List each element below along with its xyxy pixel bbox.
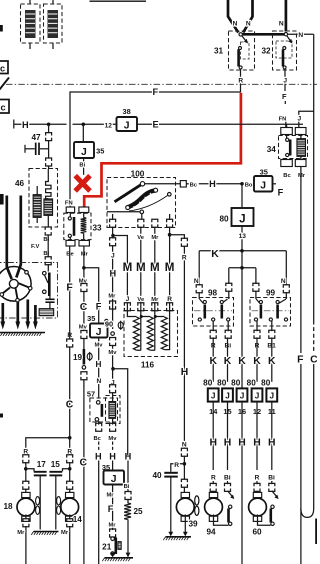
junction bbox=[240, 182, 244, 186]
svg-text:M: M bbox=[150, 261, 160, 274]
fuse 14 bbox=[208, 388, 219, 401]
svg-text:J: J bbox=[255, 391, 260, 400]
svg-text:C: C bbox=[80, 302, 88, 313]
wire H-E bus bbox=[13, 120, 15, 129]
junction bbox=[47, 123, 51, 127]
svg-text:J: J bbox=[81, 147, 87, 158]
svg-text:Mr: Mr bbox=[17, 530, 25, 536]
connector break 100p2 bbox=[138, 219, 144, 222]
connector break 57a bbox=[96, 423, 102, 426]
svg-text:H: H bbox=[95, 451, 102, 461]
junction bbox=[168, 233, 172, 237]
wire to 18 bbox=[26, 438, 70, 455]
svg-text:J: J bbox=[111, 474, 117, 485]
svg-text:Mr: Mr bbox=[81, 251, 89, 257]
wire Bi column bbox=[127, 461, 129, 493]
svg-text:57: 57 bbox=[87, 390, 95, 399]
coil 46a bbox=[33, 195, 41, 218]
svg-text:J: J bbox=[297, 116, 301, 123]
svg-text:J: J bbox=[239, 213, 245, 226]
connector break 99L bbox=[253, 283, 259, 286]
base wire bbox=[107, 211, 140, 213]
switch 60 bbox=[272, 491, 278, 498]
svg-text:H: H bbox=[22, 120, 29, 130]
svg-text:17: 17 bbox=[37, 460, 47, 469]
wire N corner to 34 bbox=[313, 34, 315, 320]
svg-text:19: 19 bbox=[73, 353, 83, 362]
svg-text:39: 39 bbox=[188, 519, 198, 528]
svg-text:F.V: F.V bbox=[31, 244, 40, 250]
svg-text:R: R bbox=[182, 255, 187, 262]
svg-text:F: F bbox=[108, 504, 114, 514]
svg-text:98: 98 bbox=[208, 288, 218, 297]
svg-text:C: C bbox=[310, 355, 317, 366]
wire 18 to edge bbox=[25, 514, 27, 519]
wire F branch bbox=[84, 268, 99, 324]
connector break Rcol bbox=[181, 238, 187, 241]
svg-text:F: F bbox=[66, 283, 72, 294]
bus node31-node32 bbox=[242, 33, 285, 36]
svg-text:90: 90 bbox=[105, 320, 113, 329]
connector break 46 low bbox=[45, 257, 51, 260]
pins of 100 bbox=[112, 214, 114, 220]
svg-text:Bc: Bc bbox=[283, 173, 291, 179]
svg-text:C: C bbox=[66, 399, 74, 410]
connector break 18 bbox=[23, 455, 29, 458]
capacitor 40 bbox=[171, 464, 185, 472]
connector break 39 bbox=[181, 479, 187, 482]
supply wire N to 32 bbox=[285, 0, 288, 32]
wire to Bc bbox=[145, 183, 181, 185]
branch to relay 35 bbox=[82, 124, 84, 142]
svg-text:N: N bbox=[298, 32, 303, 39]
connector break 14c bbox=[67, 519, 73, 522]
svg-text:J: J bbox=[225, 391, 230, 400]
svg-text:25: 25 bbox=[133, 507, 143, 516]
left edge tick bbox=[0, 414, 3, 418]
fan 14 bbox=[57, 497, 61, 505]
ground (distributor) bbox=[0, 332, 45, 334]
svg-text:R: R bbox=[174, 462, 179, 469]
wire Bi bbox=[83, 158, 85, 175]
svg-text:80: 80 bbox=[231, 379, 241, 388]
svg-text:H: H bbox=[238, 438, 246, 449]
resistor unit 116 bbox=[124, 311, 178, 357]
relay 34 bbox=[281, 128, 293, 135]
junction bbox=[82, 266, 86, 270]
connector break solenoid bbox=[110, 385, 116, 388]
svg-text:F: F bbox=[297, 355, 303, 366]
motor 94 bbox=[209, 492, 217, 497]
distributor rotor bbox=[0, 267, 31, 302]
edge bar bottom right bbox=[315, 519, 317, 545]
svg-text:K: K bbox=[224, 356, 232, 367]
wire 32 to J/F/FN bbox=[284, 69, 286, 91]
fuse 11 bbox=[266, 388, 277, 401]
connector break 18c bbox=[23, 519, 29, 522]
connector break 99p2 bbox=[269, 330, 275, 333]
svg-text:M: M bbox=[165, 261, 175, 274]
svg-text:13: 13 bbox=[239, 233, 247, 240]
svg-text:100: 100 bbox=[131, 169, 145, 178]
svg-text:H: H bbox=[253, 438, 261, 449]
svg-text:R: R bbox=[167, 296, 172, 303]
resistor 116-3 bbox=[161, 317, 167, 350]
diagonal slash bbox=[0, 78, 9, 90]
junction bbox=[82, 123, 86, 127]
svg-text:34: 34 bbox=[267, 145, 277, 154]
svg-text:Bi: Bi bbox=[124, 484, 130, 490]
svg-text:21: 21 bbox=[102, 542, 112, 551]
connector break 21 bbox=[110, 529, 116, 532]
junction bbox=[240, 266, 244, 270]
connector break 60a bbox=[254, 483, 260, 486]
switch 31 bbox=[229, 31, 255, 70]
svg-text:Mr: Mr bbox=[151, 235, 159, 241]
wire R column bbox=[170, 235, 185, 239]
distributor enclosure bbox=[0, 263, 58, 319]
junction bbox=[68, 467, 72, 471]
highlighted red circuit wire bbox=[84, 93, 241, 208]
junction bbox=[68, 436, 72, 440]
svg-text:80: 80 bbox=[219, 215, 229, 224]
fuse 15 bbox=[222, 388, 233, 401]
motor 39 bbox=[181, 492, 189, 497]
connector break 116d bbox=[167, 303, 173, 306]
svg-text:H: H bbox=[224, 438, 232, 449]
svg-text:c: c bbox=[0, 64, 5, 74]
svg-text:Mv: Mv bbox=[94, 342, 103, 348]
svg-text:H: H bbox=[209, 179, 216, 189]
connector break 99p1 bbox=[254, 330, 260, 333]
connector break 98p2 bbox=[225, 330, 231, 333]
connector break col A bbox=[67, 339, 73, 342]
element 21 bbox=[118, 542, 122, 550]
switch 94 bbox=[228, 491, 234, 498]
motor 60 bbox=[253, 492, 261, 497]
svg-text:N: N bbox=[279, 21, 284, 28]
wire F frame bbox=[70, 92, 241, 207]
switch 32 bbox=[273, 31, 297, 70]
wire Mv column bbox=[112, 461, 114, 471]
wire C right bbox=[313, 321, 315, 353]
svg-text:35: 35 bbox=[87, 314, 95, 323]
svg-text:K: K bbox=[253, 356, 261, 367]
horizontal dash-dot divider bbox=[6, 83, 317, 85]
coil 57 bbox=[109, 402, 116, 417]
svg-text:12: 12 bbox=[105, 122, 113, 129]
connector break 25 bbox=[125, 492, 131, 495]
svg-text:60: 60 bbox=[252, 528, 262, 537]
connector break 46 Bi bbox=[45, 227, 51, 230]
connector break J col bbox=[110, 238, 116, 241]
ground (capacitors) bbox=[34, 531, 59, 533]
fuse columns bbox=[212, 337, 214, 382]
left edge connector block bbox=[0, 194, 4, 205]
resistor 116-2 bbox=[147, 317, 153, 350]
svg-text:H: H bbox=[109, 451, 116, 461]
connector break colB3 bbox=[81, 372, 87, 375]
relay J 35 (bottom) bbox=[104, 471, 125, 485]
svg-text:Bi: Bi bbox=[268, 474, 275, 481]
connector break to 46 bbox=[46, 158, 52, 161]
relay J 35 bbox=[74, 142, 94, 158]
wire 14 to edge bbox=[69, 514, 71, 519]
svg-text:F: F bbox=[278, 187, 284, 197]
svg-text:99: 99 bbox=[266, 288, 276, 297]
svg-text:FN: FN bbox=[279, 117, 287, 123]
contact arc bbox=[129, 196, 168, 212]
fault cross (red X) bbox=[75, 176, 90, 191]
wire K bbox=[199, 250, 286, 252]
pads Be Mr of 33 bbox=[66, 240, 75, 246]
junction bbox=[240, 249, 244, 253]
capacitor 47 bbox=[24, 145, 26, 153]
svg-text:35: 35 bbox=[96, 146, 104, 155]
left edge tick bbox=[0, 25, 3, 32]
wire H bbox=[199, 183, 241, 185]
svg-text:R: R bbox=[255, 474, 260, 481]
junction bbox=[111, 367, 115, 371]
terminal tag c (upper) bbox=[0, 61, 8, 74]
resistor unit B (top-left) bbox=[52, 0, 54, 4]
wire F column bbox=[69, 246, 71, 331]
svg-text:c: c bbox=[0, 103, 5, 113]
svg-text:N: N bbox=[246, 21, 251, 28]
fuse 16 bbox=[237, 388, 248, 401]
svg-text:K: K bbox=[211, 249, 219, 260]
svg-text:J: J bbox=[283, 77, 287, 84]
svg-text:Bi: Bi bbox=[79, 163, 85, 169]
svg-text:Bi: Bi bbox=[224, 474, 231, 481]
node 32 bbox=[284, 33, 287, 36]
wire N to right edge bbox=[288, 33, 314, 35]
svg-text:47: 47 bbox=[31, 133, 41, 142]
motor 14 bbox=[66, 492, 74, 497]
connector break 100p3 bbox=[152, 219, 158, 222]
ground (39/40) bbox=[166, 536, 192, 538]
connector break 98L bbox=[196, 285, 202, 288]
connector break 116b bbox=[138, 303, 144, 306]
svg-text:80: 80 bbox=[247, 379, 257, 388]
connector break 90b bbox=[110, 338, 116, 341]
svg-text:FN: FN bbox=[65, 200, 73, 206]
relay J 35 (mid) bbox=[105, 319, 108, 322]
svg-text:116: 116 bbox=[141, 360, 155, 369]
connector break 14 bbox=[67, 455, 73, 458]
connector break 100p4 bbox=[167, 219, 173, 222]
coil winding 33 bbox=[81, 218, 87, 234]
actuating bar bbox=[115, 185, 142, 202]
thermo contact 19 bbox=[83, 349, 86, 365]
resistor 116-1 bbox=[133, 317, 139, 350]
svg-text:14: 14 bbox=[73, 515, 83, 524]
capacitor 15 bbox=[63, 469, 70, 472]
svg-text:35: 35 bbox=[260, 167, 268, 176]
svg-text:J: J bbox=[124, 120, 130, 131]
connector break 116c bbox=[152, 303, 158, 306]
branch to capacitor 47 bbox=[48, 124, 50, 133]
svg-text:38: 38 bbox=[122, 107, 130, 116]
supply wire N (left) bbox=[228, 0, 238, 33]
motor 18 bbox=[22, 492, 30, 497]
connector break 98p1 bbox=[210, 330, 216, 333]
ground wires bbox=[1, 303, 4, 322]
wire Mr column bbox=[83, 246, 85, 284]
connector break 98R bbox=[226, 283, 232, 286]
connector break 47 branch bbox=[46, 133, 52, 136]
segmented arm bbox=[128, 190, 155, 207]
connector break 94a bbox=[210, 483, 216, 486]
wire J-H column bbox=[112, 236, 114, 239]
connector break colB2 bbox=[81, 331, 87, 334]
wire branch to M1 bbox=[113, 236, 127, 312]
svg-text:R: R bbox=[238, 77, 243, 84]
coil 46b bbox=[44, 199, 53, 216]
svg-text:Bc: Bc bbox=[190, 182, 198, 188]
svg-text:31: 31 bbox=[214, 47, 224, 56]
connector break Mr low bbox=[110, 301, 116, 304]
svg-text:Mv: Mv bbox=[79, 325, 88, 331]
resistor 25 bbox=[124, 503, 131, 520]
fuse 12 bbox=[252, 388, 263, 401]
connector break 39N bbox=[181, 448, 187, 451]
branch to Bi column bbox=[113, 369, 128, 455]
svg-text:H: H bbox=[95, 360, 101, 369]
coil unit 33 bbox=[64, 213, 91, 239]
svg-text:Mr: Mr bbox=[108, 523, 116, 529]
svg-text:46: 46 bbox=[15, 179, 25, 188]
svg-text:H: H bbox=[268, 438, 276, 449]
fan 18 bbox=[36, 497, 40, 505]
wire K left to 98 bbox=[198, 251, 200, 286]
svg-text:M: M bbox=[123, 261, 133, 274]
svg-text:K: K bbox=[268, 356, 276, 367]
solenoid coil bbox=[109, 402, 116, 419]
svg-text:80: 80 bbox=[261, 379, 271, 388]
connector break 116a bbox=[124, 303, 130, 306]
terminal tag c (lower) bbox=[0, 100, 9, 114]
top edge line bbox=[90, 0, 147, 2]
fan 39 bbox=[195, 496, 199, 505]
resistor unit A (top-left) bbox=[29, 0, 31, 4]
svg-text:40: 40 bbox=[152, 471, 162, 480]
solenoid unit bbox=[106, 396, 121, 424]
svg-text:H: H bbox=[109, 269, 116, 279]
ground (21/25) bbox=[105, 557, 134, 559]
svg-text:Mr: Mr bbox=[106, 492, 114, 498]
svg-text:J: J bbox=[126, 296, 130, 303]
svg-text:M: M bbox=[136, 261, 146, 274]
thick lead to distributor bbox=[7, 196, 12, 280]
junction bbox=[111, 234, 115, 238]
svg-text:C: C bbox=[80, 458, 88, 469]
connector break 18b bbox=[23, 481, 29, 484]
connector break 94b bbox=[225, 483, 231, 486]
thick lead to distributor bbox=[16, 196, 21, 278]
wire 31 to R bbox=[240, 69, 242, 92]
svg-text:H: H bbox=[181, 367, 189, 378]
svg-text:Mv: Mv bbox=[108, 350, 117, 356]
svg-text:N: N bbox=[182, 441, 187, 448]
junction bbox=[24, 467, 28, 471]
thermo switch 90 bbox=[111, 332, 115, 336]
svg-text:N: N bbox=[97, 378, 102, 385]
wire to relay 80 bbox=[241, 184, 243, 208]
tee wire bbox=[241, 251, 243, 388]
connector break 57b bbox=[110, 423, 116, 426]
connector break 14b bbox=[67, 481, 73, 484]
ignition coil bbox=[39, 309, 54, 316]
capacitor (condenser) bbox=[49, 296, 51, 299]
svg-text:K: K bbox=[238, 356, 246, 367]
svg-text:32: 32 bbox=[261, 47, 271, 56]
node 31 bbox=[239, 33, 242, 36]
svg-text:N: N bbox=[233, 21, 238, 28]
series resistor 46 bbox=[46, 169, 51, 199]
svg-text:N: N bbox=[194, 278, 199, 285]
capacitor 17 bbox=[26, 469, 34, 472]
svg-text:Mr: Mr bbox=[108, 294, 116, 300]
junction bbox=[183, 462, 187, 466]
svg-text:F: F bbox=[152, 87, 158, 97]
svg-text:Ve: Ve bbox=[137, 297, 145, 303]
svg-text:F: F bbox=[282, 92, 287, 101]
svg-text:94: 94 bbox=[206, 528, 216, 537]
svg-text:18: 18 bbox=[3, 502, 13, 511]
svg-text:J: J bbox=[111, 379, 115, 386]
connector break colB1 bbox=[81, 284, 87, 287]
svg-text:Mr: Mr bbox=[298, 173, 306, 179]
svg-text:J: J bbox=[260, 181, 266, 192]
svg-text:F: F bbox=[96, 301, 102, 311]
svg-text:J: J bbox=[96, 327, 102, 338]
svg-text:H: H bbox=[209, 438, 217, 449]
svg-text:Be: Be bbox=[66, 251, 74, 257]
svg-text:K: K bbox=[209, 356, 217, 367]
svg-text:33: 33 bbox=[92, 223, 102, 232]
connector break 60b bbox=[269, 483, 275, 486]
connector break 100p1 bbox=[110, 219, 116, 222]
u-turn bbox=[301, 509, 314, 518]
svg-text:15: 15 bbox=[51, 460, 61, 469]
svg-text:Mv: Mv bbox=[108, 436, 117, 442]
supply wire N (right) bbox=[243, 0, 252, 33]
svg-text:J: J bbox=[240, 391, 245, 400]
pad Bc bbox=[180, 181, 186, 187]
contact breaker points bbox=[47, 264, 49, 272]
svg-text:Mr: Mr bbox=[61, 530, 69, 536]
contact 21 bbox=[111, 537, 115, 541]
wire F right bbox=[300, 167, 302, 354]
coil 34 bbox=[297, 139, 306, 157]
svg-text:E: E bbox=[153, 120, 159, 130]
svg-text:Bo: Bo bbox=[245, 182, 253, 188]
svg-text:J: J bbox=[111, 253, 115, 260]
svg-text:Mr: Mr bbox=[151, 297, 159, 303]
svg-text:R: R bbox=[211, 474, 216, 481]
svg-text:Bc: Bc bbox=[93, 436, 101, 442]
svg-text:Ve: Ve bbox=[137, 235, 145, 241]
svg-text:J: J bbox=[270, 391, 275, 400]
wire K right to 99 bbox=[285, 251, 287, 286]
connector break 99R bbox=[283, 285, 289, 288]
svg-text:N: N bbox=[281, 278, 286, 285]
svg-text:80: 80 bbox=[203, 379, 213, 388]
svg-text:80: 80 bbox=[217, 379, 227, 388]
svg-text:J: J bbox=[211, 391, 216, 400]
